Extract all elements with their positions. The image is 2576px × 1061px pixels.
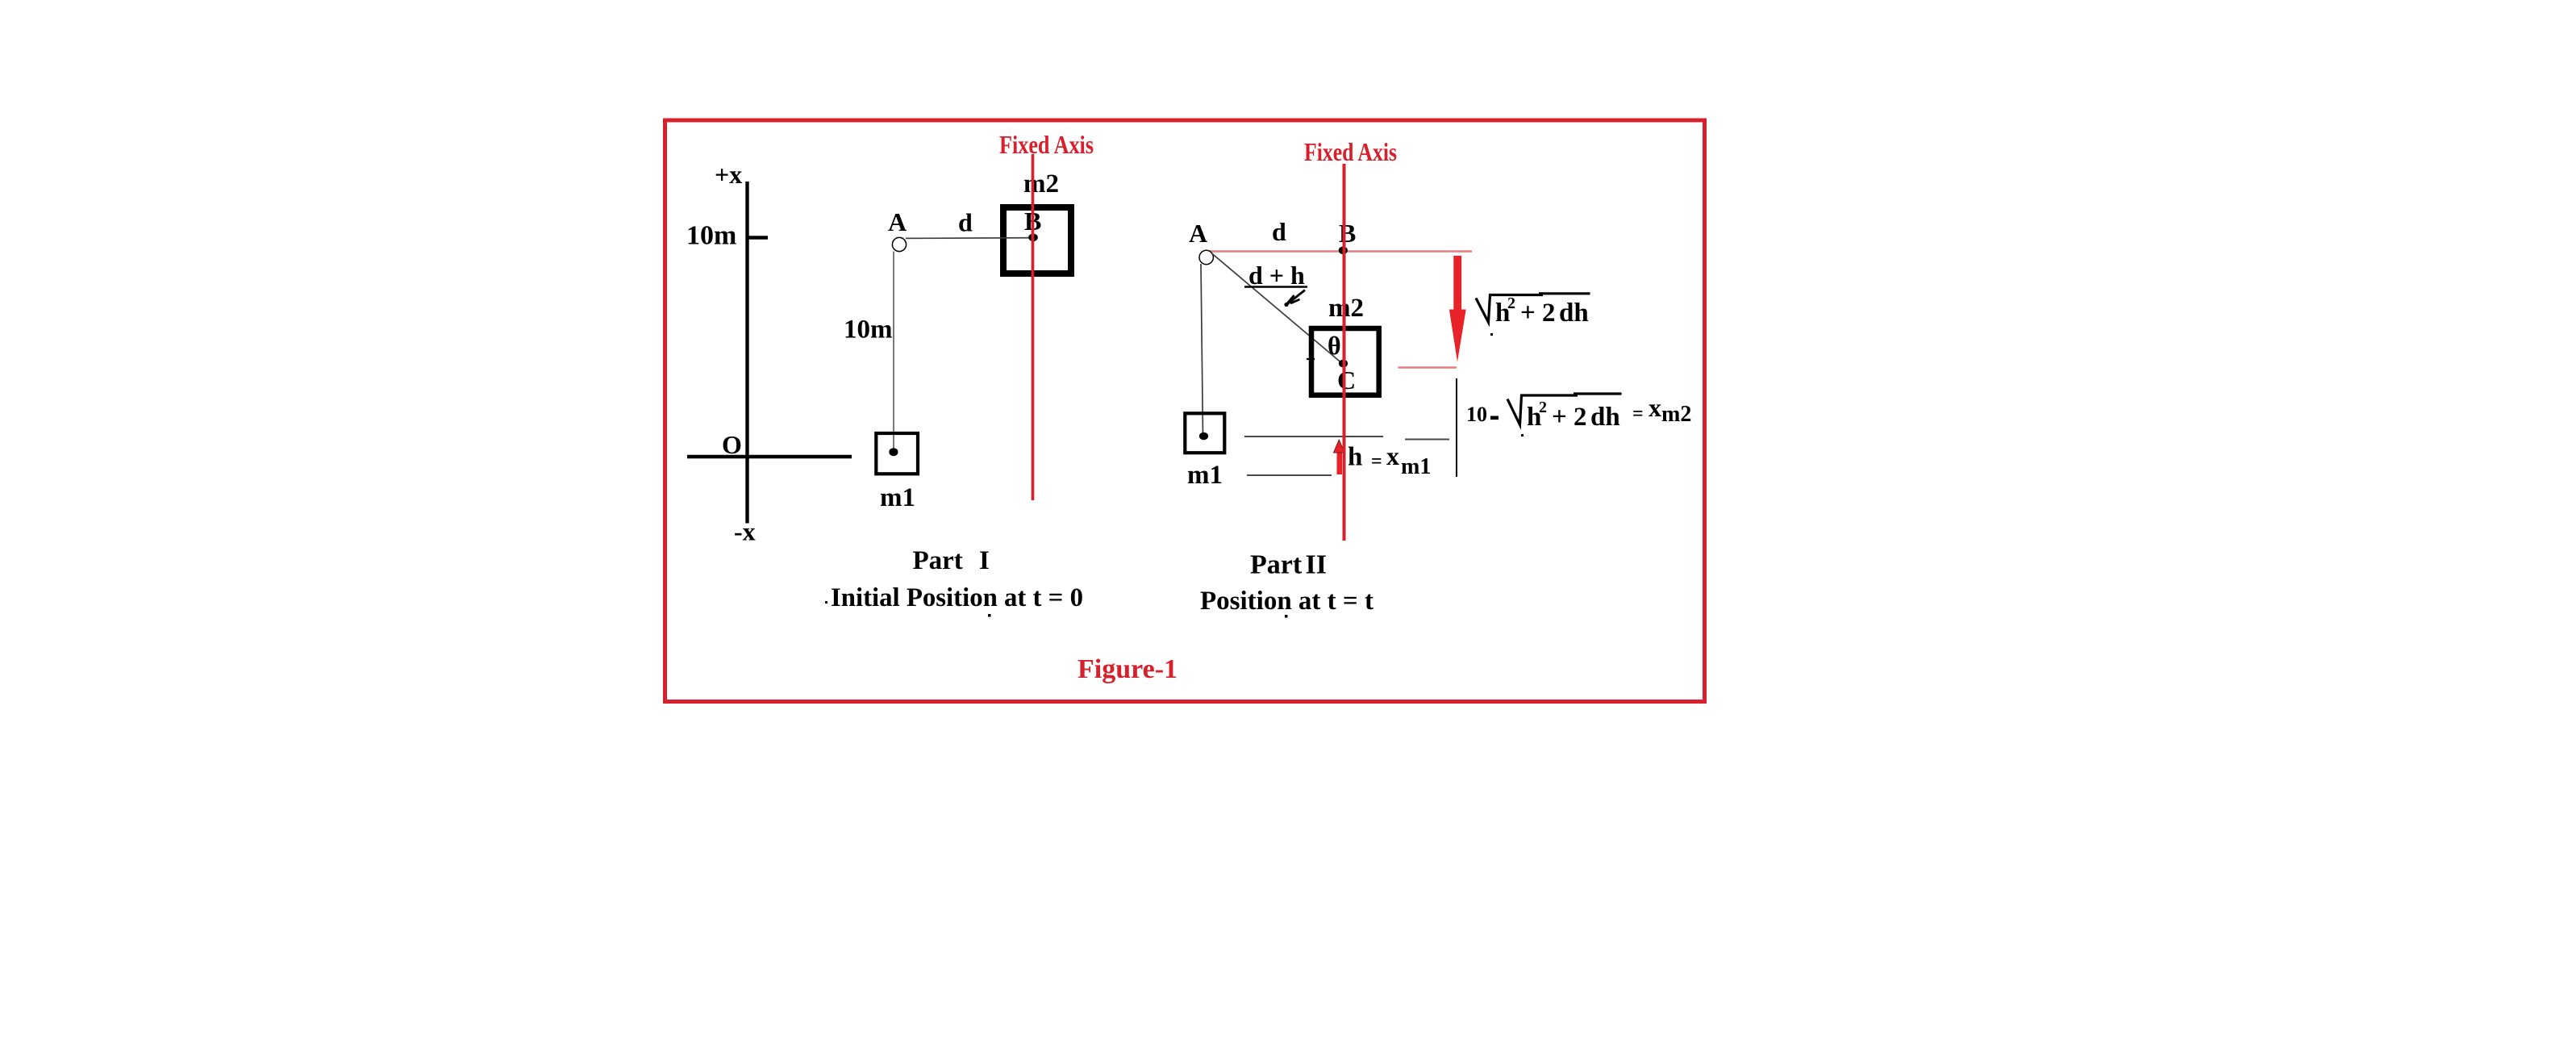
gray level line lower — [1247, 474, 1332, 476]
radical sqrt(h^2+2dh) bottom — [1507, 395, 1578, 425]
dot B (Part II) — [1339, 247, 1348, 255]
fixed axis red line (Part II) — [1343, 164, 1346, 541]
gray level line upper — [1244, 436, 1383, 437]
svg-text:x: x — [1649, 393, 1661, 422]
red frame — [665, 120, 1705, 702]
svg-text:+x: +x — [715, 160, 742, 189]
dot m1 (Part II) — [1199, 432, 1208, 441]
svg-text:A: A — [888, 207, 907, 236]
svg-text:I: I — [979, 546, 990, 575]
svg-text:d: d — [1272, 217, 1286, 246]
svg-text:m1: m1 — [1401, 454, 1431, 479]
svg-text:A: A — [1189, 219, 1207, 248]
svg-text:=: = — [1371, 451, 1382, 472]
svg-text:m1: m1 — [1187, 461, 1223, 490]
stray mark below bottom radical — [1521, 434, 1524, 437]
radical sqrt(h^2+2dh) top — [1476, 295, 1543, 323]
svg-text:=: = — [1632, 403, 1644, 424]
svg-text:2: 2 — [1542, 299, 1556, 328]
fixed axis red line (Part I) — [1032, 154, 1035, 500]
stray mark below Initial Position — [988, 614, 991, 617]
small arrow under d + h — [1286, 290, 1305, 306]
svg-text:Figure-1: Figure-1 — [1078, 654, 1178, 684]
stray mark below Position at — [1285, 615, 1288, 618]
svg-text:Part: Part — [913, 546, 963, 575]
dot C — [1339, 360, 1348, 368]
svg-text:B: B — [1339, 219, 1356, 248]
svg-text:d + h: d + h — [1248, 261, 1305, 290]
svg-text:2: 2 — [1507, 294, 1515, 312]
svg-text:m2: m2 — [1328, 294, 1364, 323]
svg-text:m2: m2 — [1661, 402, 1691, 427]
horizontal axis line — [687, 455, 852, 458]
svg-text:x: x — [1386, 441, 1399, 470]
dot m1 (Part I) — [889, 448, 898, 456]
svg-text:10m: 10m — [844, 315, 893, 345]
svg-text:m1: m1 — [880, 483, 915, 512]
m1 box (Part II) — [1185, 413, 1224, 453]
small tick left of m2 box — [1307, 358, 1315, 360]
diagonal rope A to C — [1212, 253, 1344, 365]
svg-text:d: d — [958, 208, 973, 237]
stray mark near radical top — [1490, 333, 1493, 336]
svg-text:θ: θ — [1328, 331, 1341, 360]
svg-text:Position at t = t: Position at t = t — [1200, 587, 1373, 616]
red up arrow — [1337, 452, 1343, 474]
svg-text:Initial Position at t = 0: Initial Position at t = 0 — [831, 583, 1083, 612]
svg-text:10: 10 — [1466, 403, 1487, 426]
rope A to B (Part I) — [906, 237, 1032, 240]
svg-text:10m: 10m — [686, 221, 736, 251]
svg-text:Part: Part — [1250, 550, 1303, 580]
pale red horizontal reference line A-B extended — [1204, 250, 1472, 252]
svg-text:Fixed Axis: Fixed Axis — [1304, 137, 1397, 166]
svg-text:m2: m2 — [1023, 169, 1059, 198]
svg-text:2: 2 — [1539, 399, 1547, 416]
m1 box (Part I) — [876, 433, 918, 474]
rope A down to m1 (Part I) — [893, 252, 894, 449]
svg-text:-x: -x — [734, 517, 756, 546]
svg-text:dh: dh — [1590, 403, 1620, 432]
rope A down to m1 (Part II) — [1201, 264, 1203, 436]
pulley A (Part II) — [1199, 250, 1213, 264]
m2 box (Part I) — [1003, 207, 1071, 274]
svg-text:O: O — [722, 430, 742, 459]
pulley A (Part I) — [892, 237, 906, 251]
svg-text:+: + — [1552, 403, 1567, 432]
tick 10m — [748, 236, 768, 240]
svg-text:dh: dh — [1559, 299, 1589, 328]
vertical dimension line right — [1456, 378, 1457, 477]
svg-text:II: II — [1306, 550, 1327, 580]
svg-text:h: h — [1348, 443, 1362, 472]
underline of d + h — [1244, 286, 1307, 288]
svg-text:2: 2 — [1574, 403, 1587, 432]
stray mark left of Initial — [825, 601, 827, 604]
svg-text:Fixed Axis: Fixed Axis — [999, 130, 1094, 159]
thick red down arrow — [1453, 256, 1461, 310]
svg-text:+: + — [1520, 299, 1536, 328]
dot B (Part I) — [1028, 234, 1038, 242]
pale red line below arrow tip — [1398, 366, 1457, 368]
x-axis vertical line — [745, 182, 748, 524]
gray level line right — [1405, 439, 1449, 441]
svg-text:C: C — [1337, 366, 1356, 395]
m2 box (Part II) — [1311, 328, 1379, 395]
